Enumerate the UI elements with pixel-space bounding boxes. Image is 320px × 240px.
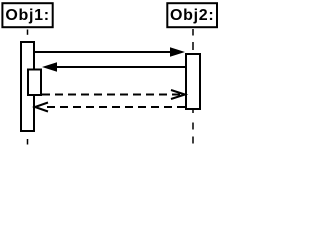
- arrowhead message 2 (filled left): [42, 62, 57, 72]
- activation bar Obj1 main: [21, 42, 34, 131]
- lifeline Obj2 (dashed segments): [192, 29, 194, 144]
- arrowhead message 1 (filled right): [170, 47, 185, 57]
- lifeline Obj1 (dashed segments): [27, 30, 29, 145]
- message 2 call Obj2 to Obj1 (solid): [55, 66, 185, 68]
- activation bar Obj1 nested: [28, 70, 41, 96]
- svg-text:Obj1:: Obj1:: [5, 7, 49, 24]
- svg-text:Obj2:: Obj2:: [170, 7, 214, 24]
- activation bar Obj2: [186, 54, 200, 109]
- message 1 call Obj1 to Obj2 (solid): [35, 51, 171, 53]
- message 3 return Obj1 to Obj2 (dashed): [42, 94, 180, 96]
- arrowhead message 3 (open right): [171, 90, 185, 99]
- object box Obj2: [167, 3, 217, 27]
- message 4 return Obj2 to Obj1 (dashed): [42, 106, 185, 108]
- object box Obj1: [2, 3, 52, 27]
- arrowhead message 4 (open left): [35, 103, 48, 112]
